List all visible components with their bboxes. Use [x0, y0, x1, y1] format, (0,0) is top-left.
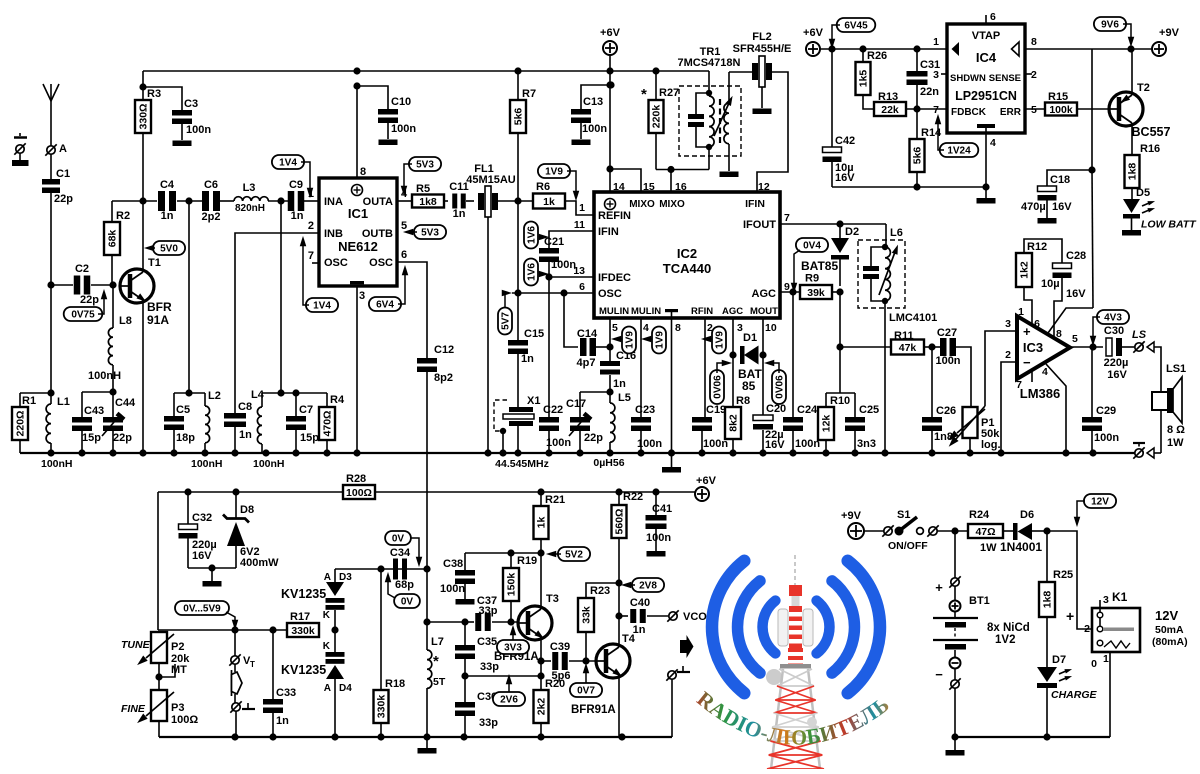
wire TR1 to FL2	[729, 71, 752, 73]
node D6 R25	[1043, 527, 1094, 629]
resistor R14	[910, 109, 943, 187]
svg-text:C35: C35	[477, 636, 497, 648]
wire	[50, 285, 52, 393]
svg-text:8: 8	[360, 166, 366, 178]
node R21 T3	[465, 549, 545, 607]
potentiometer P3 FINE	[121, 690, 198, 737]
svg-text:16V: 16V	[192, 550, 212, 562]
svg-text:5: 5	[1072, 333, 1078, 345]
label 0V lower	[385, 572, 420, 608]
capacitor C30 electrolytic	[1104, 325, 1134, 381]
capacitor C20	[753, 403, 786, 453]
svg-text:100nH: 100nH	[191, 458, 223, 470]
svg-text:L2: L2	[208, 390, 221, 402]
svg-text:1n: 1n	[291, 210, 304, 222]
svg-text:1k: 1k	[543, 196, 555, 208]
svg-text:C43: C43	[84, 405, 104, 417]
inductor L7	[427, 622, 446, 737]
svg-text:*: *	[641, 86, 647, 103]
node +6V rail	[606, 67, 613, 172]
svg-text:7: 7	[933, 104, 939, 116]
svg-text:1n: 1n	[276, 715, 289, 727]
svg-text:X1: X1	[527, 395, 540, 407]
power +9V	[1152, 27, 1180, 56]
ground plug connector	[12, 133, 29, 166]
svg-text:C9: C9	[289, 179, 303, 191]
svg-text:C23: C23	[635, 404, 655, 416]
capacitor C21	[539, 236, 576, 271]
svg-text:C18: C18	[1050, 174, 1070, 186]
svg-text:C14: C14	[577, 328, 598, 340]
svg-text:15p: 15p	[82, 432, 101, 444]
node R9 D2	[832, 288, 844, 347]
connector ground jack	[230, 694, 255, 737]
svg-text:8k2: 8k2	[728, 414, 740, 432]
label 0uH56	[593, 457, 624, 469]
diode D2 BAT85	[801, 224, 859, 286]
svg-text:16V: 16V	[1107, 369, 1127, 381]
varicap feed wire	[335, 565, 431, 572]
svg-text:R24: R24	[969, 509, 990, 521]
svg-text:0V: 0V	[401, 597, 414, 608]
svg-text:5p6: 5p6	[552, 670, 571, 682]
svg-text:R17: R17	[290, 611, 310, 623]
IC1 pin 8 wire	[357, 86, 366, 178]
svg-text:C22: C22	[543, 404, 563, 416]
relay K1 DC jack	[1084, 590, 1187, 670]
capacitor C39	[541, 641, 597, 682]
svg-text:22n: 22n	[920, 86, 939, 98]
svg-text:OSC: OSC	[324, 257, 348, 269]
node battery	[951, 527, 958, 578]
resistor R18	[374, 569, 406, 737]
svg-text:1n: 1n	[633, 624, 646, 636]
svg-text:5k6: 5k6	[513, 108, 525, 126]
svg-text:INB: INB	[324, 228, 343, 240]
trimmer capacitor C44	[102, 392, 136, 453]
label 6V4	[369, 265, 408, 311]
svg-text:5: 5	[1031, 104, 1037, 116]
connector LS	[1132, 329, 1147, 353]
R12-C28 bridge wire	[1024, 239, 1062, 263]
svg-text:4: 4	[990, 137, 996, 149]
svg-text:47k: 47k	[899, 342, 917, 354]
svg-text:12V: 12V	[1091, 497, 1109, 508]
svg-text:R16: R16	[1140, 143, 1160, 155]
svg-text:SENSE: SENSE	[989, 73, 1021, 84]
capacitor C31	[907, 45, 941, 109]
LED D7	[1037, 654, 1073, 737]
label 1V9 pin5	[611, 327, 636, 354]
connector arrow symbol	[232, 670, 243, 696]
svg-text:100n: 100n	[1094, 432, 1119, 444]
svg-text:R11: R11	[894, 330, 914, 342]
svg-text:22p: 22p	[113, 432, 132, 444]
capacitor C23	[631, 404, 662, 453]
resistor R8	[725, 395, 750, 453]
svg-text:K: K	[323, 610, 331, 621]
svg-text:22p: 22p	[80, 294, 99, 306]
svg-text:100n: 100n	[186, 124, 211, 136]
svg-text:7MCS4718N: 7MCS4718N	[678, 57, 741, 69]
bus junction nodes right	[789, 449, 1069, 456]
IC2 pin10 MOUT wire	[762, 318, 764, 415]
svg-text:18p: 18p	[176, 432, 195, 444]
svg-text:C40: C40	[630, 597, 650, 609]
resistor R19	[503, 549, 537, 622]
node R11-C27	[924, 343, 940, 417]
capacitor C41	[646, 488, 673, 556]
svg-text:1V4: 1V4	[313, 301, 331, 312]
capacitor C27	[935, 327, 971, 407]
svg-text:2: 2	[1084, 623, 1090, 635]
svg-text:1V24: 1V24	[947, 146, 971, 157]
svg-text:C25: C25	[859, 404, 879, 416]
capacitor C37	[461, 595, 518, 631]
node antenna-C2	[47, 281, 54, 288]
svg-text:R21: R21	[545, 494, 565, 506]
label 44.545MHz	[495, 458, 549, 470]
svg-text:+6V: +6V	[696, 475, 717, 487]
svg-text:100n: 100n	[546, 437, 571, 449]
inductor L4	[251, 389, 285, 470]
svg-text:MIXO: MIXO	[629, 199, 655, 210]
label 2V8	[621, 578, 664, 592]
svg-text:R18: R18	[385, 678, 405, 690]
svg-text:100n: 100n	[440, 583, 465, 595]
logo radio tower	[766, 555, 824, 769]
resistor R3	[135, 71, 161, 133]
wire R27 to TR1	[656, 169, 709, 171]
svg-text:0µH56: 0µH56	[593, 457, 624, 469]
svg-text:R5: R5	[416, 183, 430, 195]
capacitor C19	[692, 404, 728, 453]
T4 emitter wire	[618, 676, 620, 737]
capacitor C24	[783, 404, 820, 453]
IC3 output wire pin5	[1070, 343, 1103, 350]
wire L6 down	[884, 301, 886, 453]
IC2 pin2 RFIN wire	[704, 318, 706, 417]
label 5V0	[144, 241, 185, 255]
svg-text:8: 8	[1031, 36, 1037, 48]
label KV1235 upper	[281, 587, 326, 601]
capacitor C26	[922, 405, 956, 453]
capacitor C5	[164, 393, 195, 453]
svg-text:T3: T3	[546, 593, 559, 605]
ground	[572, 140, 591, 146]
label 0V75	[64, 289, 108, 321]
svg-text:3: 3	[1103, 594, 1109, 606]
node R23 base T4	[582, 657, 589, 664]
IC4 ground wire	[832, 183, 990, 190]
capacitor C7	[286, 393, 319, 453]
svg-text:100n: 100n	[551, 259, 576, 271]
potentiometer P2 TUNE	[121, 632, 190, 676]
svg-text:14: 14	[613, 181, 625, 193]
label 1V9 R6	[538, 164, 579, 201]
IC4 pin8 wire +9V	[1025, 48, 1152, 50]
label 1V9 pin4	[641, 327, 666, 354]
svg-text:R22: R22	[623, 491, 643, 503]
svg-text:T: T	[250, 660, 255, 669]
svg-text:+: +	[1023, 324, 1031, 339]
label 2V6	[493, 674, 525, 706]
svg-text:10µ: 10µ	[1041, 278, 1060, 290]
wire input	[112, 200, 203, 202]
svg-text:D2: D2	[845, 226, 859, 238]
svg-text:1k2: 1k2	[1019, 261, 1031, 279]
IC4 pin6 stub	[985, 15, 987, 24]
IC2 pin3 AGC wire	[732, 318, 734, 407]
capacitor C15	[508, 328, 544, 407]
svg-text:12V: 12V	[1155, 608, 1178, 623]
svg-text:100nH: 100nH	[253, 458, 285, 470]
IC3 pin3 wiper arrow	[946, 406, 985, 449]
capacitor C36	[455, 676, 498, 737]
svg-text:1: 1	[1018, 306, 1024, 318]
svg-text:C27: C27	[937, 327, 957, 339]
svg-text:log.: log.	[981, 439, 1001, 451]
resistor R11	[891, 330, 924, 355]
label 0V4	[791, 238, 828, 293]
svg-text:1N4001: 1N4001	[1000, 540, 1042, 554]
svg-text:1W: 1W	[1167, 437, 1184, 449]
ground bus wire	[20, 452, 1135, 454]
capacitor C42	[823, 135, 856, 187]
resistor R1	[12, 393, 51, 453]
svg-text:MOUT: MOUT	[750, 306, 778, 317]
filter FL2	[733, 31, 792, 87]
trimmer capacitor C17	[566, 392, 603, 453]
svg-text:220µ: 220µ	[1104, 357, 1129, 369]
svg-text:R28: R28	[346, 473, 366, 485]
svg-text:R13: R13	[878, 91, 898, 103]
transformer TR1	[678, 46, 741, 171]
capacitor C22	[539, 404, 571, 453]
label 5V3 pin5	[403, 225, 446, 239]
battery ground bus	[951, 733, 1110, 740]
wire C43 top	[82, 391, 113, 393]
IC2 pin8 ground wire	[671, 318, 673, 453]
capacitor C3	[143, 87, 211, 140]
IC2 pin numbers	[573, 181, 790, 334]
svg-text:0V...5V9: 0V...5V9	[183, 604, 221, 615]
svg-text:A: A	[324, 683, 331, 694]
svg-text:C38: C38	[443, 558, 463, 570]
tank 3 top wire	[262, 389, 327, 396]
capacitor C6	[202, 179, 221, 223]
node R13 pin7	[913, 105, 920, 112]
resistor R9	[800, 273, 832, 300]
svg-text:5V0: 5V0	[160, 244, 178, 255]
ground D5	[1122, 230, 1141, 236]
label 0V...5V9	[175, 601, 238, 630]
svg-text:AGC: AGC	[752, 288, 777, 300]
node L8 C44	[109, 388, 116, 395]
wire FL2 to IC2 pin12	[757, 72, 788, 192]
IC2 pin11 wire	[549, 231, 594, 248]
svg-text:7: 7	[1016, 379, 1022, 391]
resistor R4	[319, 393, 345, 453]
svg-text:50mA: 50mA	[1155, 624, 1184, 636]
svg-text:47Ω: 47Ω	[975, 526, 995, 538]
svg-text:BC557: BC557	[1132, 125, 1171, 139]
svg-text:A: A	[59, 143, 67, 155]
svg-text:6: 6	[401, 249, 407, 261]
capacitor C35	[455, 622, 499, 676]
capacitor C10	[357, 86, 416, 139]
battery BT1	[933, 576, 1030, 737]
power +6V bottom	[695, 475, 717, 501]
svg-text:+6V: +6V	[600, 27, 621, 39]
node R3-C3	[139, 83, 146, 90]
node R11 branch	[836, 343, 891, 393]
svg-text:R25: R25	[1053, 569, 1073, 581]
op-amp IC3 LM386	[1005, 306, 1078, 401]
connector VT	[229, 630, 255, 672]
svg-text:1V4: 1V4	[279, 158, 297, 169]
svg-text:1k5: 1k5	[858, 70, 870, 88]
svg-text:SHDWN: SHDWN	[950, 73, 986, 84]
wire to tuning pots	[157, 492, 159, 630]
power +6V right	[803, 27, 947, 56]
varicap D4	[323, 641, 352, 737]
svg-text:LS1: LS1	[1166, 363, 1186, 375]
node D3 D4 R17	[331, 626, 338, 633]
svg-text:6: 6	[1034, 318, 1040, 330]
svg-text:2V8: 2V8	[639, 581, 657, 592]
svg-text:8p2: 8p2	[434, 372, 453, 384]
label 6V45	[829, 18, 876, 49]
svg-text:R4: R4	[330, 394, 345, 406]
node R7 wire	[514, 197, 521, 293]
svg-text:15p: 15p	[300, 432, 319, 444]
svg-text:1n: 1n	[161, 210, 174, 222]
svg-text:5V3: 5V3	[416, 160, 434, 171]
wire +9V down to IC3	[1088, 49, 1095, 308]
svg-text:C34: C34	[390, 547, 411, 559]
IC3 pin2 wire	[1001, 362, 1017, 453]
svg-text:A: A	[324, 572, 331, 583]
svg-text:RFIN: RFIN	[691, 306, 713, 317]
label 5V3 pin4	[401, 157, 441, 196]
wire	[50, 193, 52, 285]
capacitor C1	[42, 154, 73, 205]
svg-text:C41: C41	[652, 503, 672, 515]
svg-text:C2: C2	[75, 263, 89, 275]
node L3-C9	[277, 197, 284, 393]
label CHARGE	[1051, 689, 1097, 701]
svg-text:+6V: +6V	[803, 27, 824, 39]
svg-text:3: 3	[933, 69, 939, 81]
capacitor C40	[630, 597, 668, 636]
svg-text:C33: C33	[276, 687, 296, 699]
svg-text:TUNE: TUNE	[121, 639, 151, 651]
capacitor C12	[417, 344, 454, 569]
label 5V7	[498, 290, 512, 335]
bus junction nodes left	[47, 449, 360, 456]
resistor R23	[578, 583, 619, 661]
label 5V2	[546, 547, 590, 561]
svg-text:33p: 33p	[479, 717, 498, 729]
node pin13	[545, 262, 594, 281]
svg-text:100Ω: 100Ω	[346, 487, 372, 499]
svg-text:100nH: 100nH	[41, 458, 73, 470]
svg-text:R2: R2	[116, 210, 130, 222]
connector VCO	[667, 610, 707, 623]
resistor R2	[104, 201, 130, 285]
svg-text:FL2: FL2	[752, 31, 772, 43]
node L1	[47, 389, 54, 396]
svg-text:L7: L7	[431, 636, 444, 648]
IC3 pin1 wire	[1024, 287, 1032, 323]
op-amp IC1 NE612 box	[319, 178, 397, 286]
tank 2 top wire	[174, 389, 205, 396]
svg-text:C8: C8	[238, 401, 252, 413]
svg-text:D8: D8	[240, 504, 254, 516]
svg-text:(80mA): (80mA)	[1152, 636, 1188, 648]
svg-text:C3: C3	[184, 98, 198, 110]
main ground bus bottom	[159, 736, 672, 738]
svg-text:100n: 100n	[795, 438, 820, 450]
label 4V3	[1090, 310, 1129, 346]
wire C35 T3	[461, 672, 541, 679]
svg-text:*: *	[433, 653, 439, 670]
ground	[173, 141, 192, 147]
plus label K1	[1066, 608, 1074, 624]
svg-text:0V7: 0V7	[577, 686, 595, 697]
svg-text:C21: C21	[544, 236, 564, 248]
svg-text:4V3: 4V3	[1104, 313, 1122, 324]
IC4 pin4 wire	[977, 133, 996, 204]
node C4-C6	[185, 197, 192, 393]
svg-text:220Ω: 220Ω	[15, 411, 27, 437]
svg-text:LOW BATT: LOW BATT	[1141, 219, 1197, 231]
capacitor C25	[845, 404, 879, 453]
svg-text:D6: D6	[1020, 509, 1034, 521]
svg-text:5k6: 5k6	[912, 147, 924, 165]
IC1 pin3 wire	[356, 286, 358, 453]
svg-text:OUTA: OUTA	[363, 196, 393, 208]
speaker LS1	[1152, 363, 1186, 449]
svg-text:16V: 16V	[835, 172, 855, 184]
svg-text:1n: 1n	[521, 353, 534, 365]
capacitor C13	[571, 81, 615, 139]
svg-text:ON/OFF: ON/OFF	[888, 540, 928, 552]
svg-text:C42: C42	[835, 135, 855, 147]
node C40	[615, 612, 628, 619]
svg-text:C32: C32	[192, 512, 212, 524]
svg-text:470µ: 470µ	[1021, 201, 1046, 213]
svg-text:15: 15	[643, 181, 655, 193]
node T1 base	[109, 281, 116, 288]
svg-text:6V45: 6V45	[844, 21, 868, 32]
label 1V6 lower	[524, 259, 549, 286]
svg-text:P2: P2	[171, 641, 184, 653]
VCO line down	[426, 569, 428, 622]
svg-text:D7: D7	[1052, 654, 1066, 666]
svg-text:T2: T2	[1137, 82, 1150, 94]
IC4 pin3 stub	[941, 73, 947, 75]
svg-text:1V9: 1V9	[625, 331, 636, 349]
svg-text:7: 7	[784, 212, 790, 224]
svg-text:100n: 100n	[391, 123, 416, 135]
resistor R24	[968, 509, 1015, 554]
svg-text:KV1235: KV1235	[281, 663, 326, 677]
switch S1	[882, 509, 968, 552]
svg-text:R15: R15	[1048, 91, 1068, 103]
varicap D3	[323, 569, 352, 652]
